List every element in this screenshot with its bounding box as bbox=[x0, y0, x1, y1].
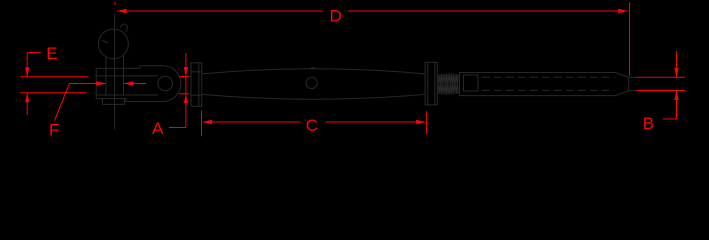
jaw eye hole bbox=[158, 76, 173, 91]
swage stud body bbox=[460, 73, 629, 96]
pin centerline bbox=[114, 14, 116, 130]
dimension C left arrow bbox=[202, 120, 212, 124]
body top bump bbox=[311, 68, 316, 69]
toggle jaw outer profile bbox=[96, 66, 181, 102]
jaw slot bottom bbox=[96, 94, 158, 96]
dimension A top extension tick bbox=[179, 76, 189, 78]
pin bottom tab bbox=[102, 99, 124, 105]
ring (pin head ring) bbox=[99, 29, 129, 59]
dimension B down arrow bbox=[674, 68, 678, 78]
dimension C right arrow bbox=[416, 120, 426, 124]
dimension A vertical line bbox=[185, 53, 187, 128]
dimension D line bbox=[117, 10, 323, 12]
swage hidden wire dashed top bbox=[482, 76, 615, 78]
clevis pin shank bbox=[105, 57, 107, 96]
turnbuckle body top edge bbox=[202, 69, 425, 74]
dimension B lower line bbox=[676, 91, 678, 119]
dimension F left arrow tail bbox=[70, 83, 107, 85]
body left end cap bbox=[191, 63, 202, 107]
dimension E bottom extension line bbox=[20, 92, 87, 94]
dimension F right arrow bbox=[124, 81, 134, 85]
dimension C line bbox=[203, 121, 301, 123]
turnbuckle body bottom edge bbox=[202, 94, 425, 99]
dimension F left arrow bbox=[96, 81, 106, 85]
exposed stud thread zigzag bbox=[438, 74, 458, 95]
dimension B upper line bbox=[676, 51, 678, 77]
svg-text:B: B bbox=[643, 114, 654, 133]
dimension A label leader bbox=[169, 127, 186, 129]
thread zigzag back lines bbox=[438, 74, 458, 95]
dimension D right arrow bbox=[618, 9, 628, 13]
dimension C left extension line bbox=[201, 111, 203, 137]
dimension E jog line bbox=[27, 52, 41, 54]
svg-text:D: D bbox=[330, 7, 342, 26]
dimension A up arrow bbox=[184, 94, 188, 104]
dimension D right extension line bbox=[629, 2, 631, 76]
locknut bbox=[425, 62, 437, 105]
dimension E lower line bbox=[26, 93, 28, 115]
dimension B top extension line bbox=[637, 76, 686, 78]
dimension E upper line bbox=[26, 53, 28, 77]
dimension E down arrow bbox=[25, 67, 29, 77]
wire bottom edge bbox=[629, 90, 637, 92]
ring end tick inner bbox=[102, 40, 108, 43]
dimension D left arrow bbox=[117, 9, 127, 13]
dimension C right extension line bbox=[426, 111, 428, 135]
dimension E top extension line bbox=[20, 76, 89, 78]
dimension B bottom extension line bbox=[637, 90, 686, 92]
dimension A down arrow bbox=[184, 67, 188, 77]
dimension B label leader bbox=[663, 118, 677, 120]
dimension B up arrow bbox=[674, 91, 678, 101]
dimension F leader diagonal bbox=[55, 84, 70, 121]
svg-text:E: E bbox=[46, 44, 57, 63]
dimension E up arrow bbox=[25, 93, 29, 103]
body center hole bbox=[306, 77, 317, 88]
ring end hook outer bbox=[120, 24, 127, 32]
swage hidden wire dashed bottom bbox=[482, 89, 615, 91]
dimension D left extension tick bbox=[114, 2, 116, 5]
svg-text:F: F bbox=[49, 120, 59, 139]
svg-text:A: A bbox=[152, 119, 164, 138]
jaw slot top bbox=[96, 75, 158, 77]
wire top edge bbox=[629, 76, 637, 78]
jaw threaded stud bbox=[181, 75, 191, 77]
svg-text:C: C bbox=[306, 116, 318, 135]
dimension F right arrow tail bbox=[124, 83, 146, 85]
dimension A bottom extension tick bbox=[179, 93, 189, 95]
swage socket rectangle bbox=[464, 75, 478, 91]
